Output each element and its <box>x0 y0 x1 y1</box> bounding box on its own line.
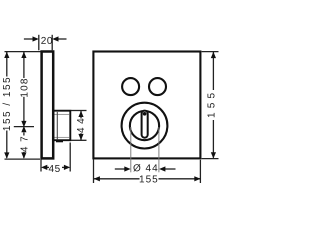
svg-text:155: 155 <box>139 174 159 185</box>
svg-text:45: 45 <box>49 164 61 175</box>
svg-text:1 5 5: 1 5 5 <box>207 92 218 118</box>
svg-text:4 7: 4 7 <box>20 135 31 152</box>
svg-text:155 / 155: 155 / 155 <box>2 76 13 131</box>
svg-text:20: 20 <box>41 36 53 47</box>
svg-text:108: 108 <box>20 77 31 97</box>
svg-text:Ø 44: Ø 44 <box>133 163 159 174</box>
svg-text:4 4: 4 4 <box>76 118 87 133</box>
